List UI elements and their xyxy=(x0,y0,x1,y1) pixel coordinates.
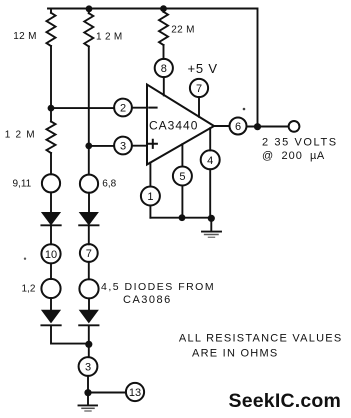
svg-text:ALL RESISTANCE VALUES: ALL RESISTANCE VALUES xyxy=(179,332,343,344)
svg-text:7: 7 xyxy=(86,248,92,260)
svg-text:+5 V: +5 V xyxy=(188,61,218,76)
svg-text:2: 2 xyxy=(120,103,126,115)
svg-text:1: 1 xyxy=(147,191,153,203)
svg-text:@200µA: @200µA xyxy=(262,150,325,162)
svg-text:22 M: 22 M xyxy=(171,24,194,35)
svg-text:1,2: 1,2 xyxy=(22,283,36,294)
svg-text:ARE IN OHMS: ARE IN OHMS xyxy=(192,347,278,359)
svg-text:CA3086: CA3086 xyxy=(123,294,172,306)
svg-text:6,8: 6,8 xyxy=(102,179,116,190)
svg-text:13: 13 xyxy=(129,387,141,399)
svg-text:4: 4 xyxy=(207,155,213,167)
svg-text:6: 6 xyxy=(235,121,241,133)
svg-text:5: 5 xyxy=(179,171,185,183)
svg-text:1 2 M: 1 2 M xyxy=(5,129,36,140)
svg-text:12 M: 12 M xyxy=(13,31,36,42)
svg-text:1 2 M: 1 2 M xyxy=(96,32,123,43)
svg-text:8: 8 xyxy=(161,63,167,75)
svg-text:3: 3 xyxy=(120,141,126,153)
svg-text:7: 7 xyxy=(196,83,202,95)
svg-text:3: 3 xyxy=(85,362,91,374)
svg-text:9,11: 9,11 xyxy=(13,178,32,189)
svg-text:SeekIC.com: SeekIC.com xyxy=(229,390,342,412)
svg-text:4,5 DIODES FROM: 4,5 DIODES FROM xyxy=(101,281,215,293)
svg-text:2 35 VOLTS: 2 35 VOLTS xyxy=(262,137,338,149)
svg-text:CA3440: CA3440 xyxy=(149,119,198,133)
svg-text:10: 10 xyxy=(45,249,57,261)
